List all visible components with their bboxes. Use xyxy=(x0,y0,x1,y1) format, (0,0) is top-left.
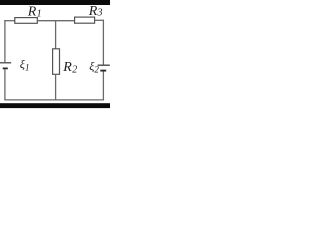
wire left vertical upper xyxy=(4,20,6,62)
svg-text:1: 1 xyxy=(25,62,30,72)
wire top-middle segment xyxy=(37,20,74,22)
label R2 xyxy=(62,60,77,75)
wire bottom segment xyxy=(4,99,104,101)
svg-text:2: 2 xyxy=(72,65,77,76)
wire right vertical lower xyxy=(102,72,104,101)
label xi1 xyxy=(20,57,30,72)
svg-text:R: R xyxy=(62,60,72,75)
wire middle vertical upper xyxy=(55,21,57,49)
svg-text:1: 1 xyxy=(37,8,42,19)
resistor R3 xyxy=(75,17,95,23)
label xi2 xyxy=(89,59,99,75)
resistor R1 xyxy=(15,18,38,24)
wire top-left segment xyxy=(4,20,15,22)
svg-text:R: R xyxy=(27,5,37,20)
svg-text:3: 3 xyxy=(97,8,103,19)
wire left vertical lower xyxy=(4,69,6,100)
EMF source xi2 xyxy=(98,65,110,70)
svg-text:2: 2 xyxy=(94,64,99,74)
svg-text:R: R xyxy=(88,4,98,19)
label R3 xyxy=(88,4,103,19)
wire right vertical upper xyxy=(102,20,104,65)
resistor R2 xyxy=(53,49,60,75)
EMF source xi1 xyxy=(0,63,11,69)
wire top-right segment xyxy=(95,19,104,21)
wire middle vertical lower xyxy=(55,74,57,100)
label R1 xyxy=(27,5,42,20)
